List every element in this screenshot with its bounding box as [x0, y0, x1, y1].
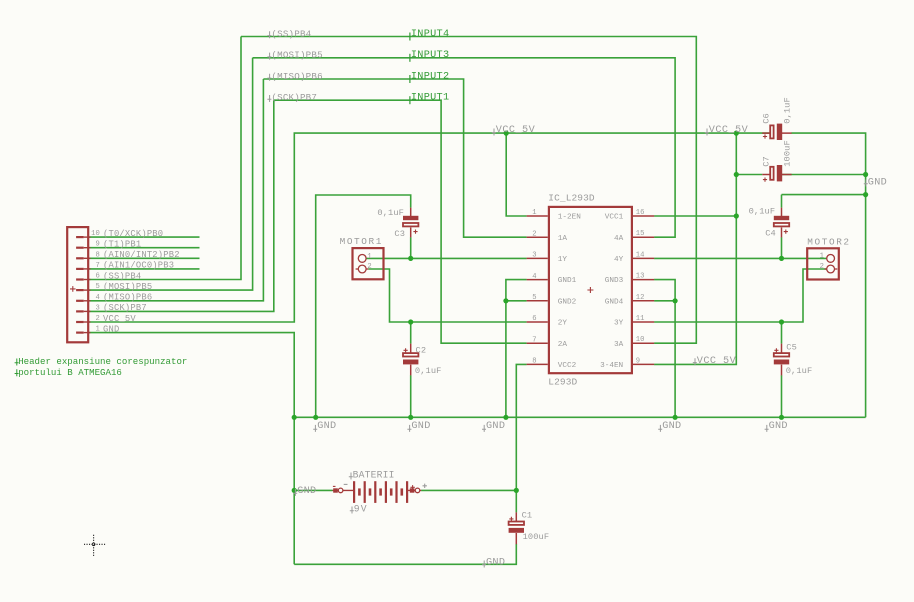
wire IC GND2 pin 5 to GND vertical: [506, 300, 527, 302]
wire net INPUT4: top row 1 to IC pin 10: [241, 37, 696, 344]
svg-text:4: 4: [95, 294, 99, 302]
header pin 7 contact tick: [76, 268, 84, 270]
header pin 6 contact tick: [76, 278, 84, 280]
MOTOR1 pin 2 circle and lead: [356, 268, 369, 270]
junction GND bus at C5: [779, 415, 784, 420]
wire net 1Y: MOTOR1 pin 1 to IC pin 3: [366, 257, 526, 259]
capacitor C1 leads: [515, 512, 517, 544]
svg-text:9: 9: [95, 241, 99, 249]
svg-text:(SS)PB4: (SS)PB4: [103, 271, 141, 281]
svg-text:INPUT4: INPUT4: [411, 29, 449, 40]
svg-text:4: 4: [532, 273, 536, 281]
junction VCC vertical at C7: [734, 172, 739, 177]
IC pin 15 stub: [633, 236, 654, 238]
net label (SCK)PB7: [267, 95, 271, 102]
svg-text:10: 10: [91, 230, 100, 238]
svg-text:VCC2: VCC2: [558, 362, 577, 370]
IC pin 6 stub: [527, 321, 548, 323]
wire IC GND4 pin 12 to GND vertical: [654, 300, 675, 302]
svg-text:GND: GND: [103, 324, 119, 334]
junction C2 top on 2Y net: [408, 319, 413, 324]
svg-text:GND: GND: [297, 486, 316, 497]
IC pin 16 stub: [633, 215, 654, 217]
svg-text:(MOSI)PB5: (MOSI)PB5: [271, 50, 322, 61]
svg-text:10: 10: [636, 336, 645, 344]
svg-text:GND: GND: [486, 421, 505, 432]
C1 polarity +: [509, 517, 513, 521]
svg-text:(SS)PB4: (SS)PB4: [271, 28, 311, 39]
svg-text:4Y: 4Y: [614, 256, 624, 264]
C5 polarity +: [774, 348, 778, 352]
wire C3 bottom lead to 1Y net: [410, 237, 412, 258]
wire net INPUT3: top row 2 to IC pin 15: [253, 58, 675, 237]
net label GND (bus at GND3/4): [658, 425, 662, 432]
svg-text:3-4EN: 3-4EN: [600, 362, 623, 370]
IC pin 8 stub: [527, 363, 548, 365]
svg-text:GND2: GND2: [558, 298, 577, 306]
svg-text:16: 16: [636, 209, 645, 217]
svg-text:15: 15: [636, 230, 645, 238]
junction GND bus at GND3/4: [673, 415, 678, 420]
header pin 5 contact tick: [76, 289, 84, 291]
wire net (MOSI)PB5: vertical down to header pin 5: [89, 58, 252, 290]
capacitor C6 plates: [770, 124, 782, 140]
C6 polarity +: [763, 134, 767, 138]
net label INPUT2: [409, 75, 411, 83]
svg-text:11: 11: [636, 315, 645, 323]
wire VCC_5V drop to IC pin 1: [506, 133, 526, 216]
svg-text:13: 13: [636, 273, 645, 281]
connector MOTOR2 body: [807, 248, 839, 279]
svg-text:GND: GND: [486, 558, 505, 569]
svg-text:3A: 3A: [614, 341, 624, 349]
svg-text:INPUT3: INPUT3: [411, 50, 449, 61]
note: Header expansiune corespunzator: [15, 359, 19, 366]
svg-text:(SCK)PB7: (SCK)PB7: [103, 303, 147, 313]
svg-text:L293D: L293D: [548, 377, 577, 388]
wire net (T0/XCK)PB0 stub: [89, 236, 199, 238]
wire C4 top to GND rail: [782, 194, 866, 196]
svg-text:1-2EN: 1-2EN: [558, 214, 581, 222]
IC pin 9 stub: [633, 363, 654, 365]
wire C2 top lead from 2Y net: [410, 322, 412, 344]
svg-text:VCC_5V: VCC_5V: [496, 125, 536, 136]
wire bottom GND rail to C1 bottom: [294, 544, 516, 564]
net label (MISO)PB6: [267, 74, 271, 81]
net label INPUT3: [409, 54, 411, 62]
net label GND (bus at C5): [765, 425, 769, 432]
svg-text:2A: 2A: [558, 341, 568, 349]
wire net (MISO)PB6: vertical down to header pin 4: [89, 79, 263, 301]
svg-text:C4: C4: [765, 228, 776, 238]
svg-text:(T0/XCK)PB0: (T0/XCK)PB0: [103, 229, 163, 239]
wire C3 top to GND bus via left loop: [316, 195, 411, 417]
svg-text:VCC1: VCC1: [605, 214, 624, 222]
capacitor C6 leads: [762, 132, 791, 134]
C7 polarity +: [763, 178, 767, 182]
capacitor C1 plates: [509, 522, 524, 533]
svg-text:7: 7: [532, 336, 536, 344]
svg-text:INPUT2: INPUT2: [411, 71, 449, 82]
svg-text:0,1uF: 0,1uF: [783, 97, 793, 124]
svg-text:0,1uF: 0,1uF: [786, 366, 813, 376]
net label GND (bus at C3): [313, 425, 317, 432]
svg-text:1: 1: [532, 209, 536, 217]
wire battery plus to VCC2 vertical: [421, 489, 516, 491]
header pin 9 contact tick: [76, 247, 84, 249]
junction C3 bottom on 1Y net: [408, 256, 413, 261]
svg-text:3: 3: [95, 304, 99, 312]
header pin 8 contact tick: [76, 257, 84, 259]
connector header SV1 (port B expansion) body: [67, 227, 88, 342]
svg-text:9: 9: [636, 357, 640, 365]
wire IC GND1 pin 4 down to GND bus: [506, 280, 527, 418]
IC pin 4 stub: [527, 279, 548, 281]
junction VCC_5V at IC pin1 drop: [504, 131, 509, 136]
header pin 6 lead: [84, 279, 91, 281]
svg-text:9V: 9V: [354, 503, 368, 514]
net label GND (right rail): [864, 180, 868, 187]
svg-text:1A: 1A: [558, 235, 568, 243]
IC pin 11 stub: [633, 321, 654, 323]
svg-text:0,1uF: 0,1uF: [749, 206, 776, 216]
net label VCC_5V (at IC pin 9): [693, 358, 697, 365]
svg-text:GND3: GND3: [605, 277, 624, 285]
junction GND3-GND4: [673, 298, 678, 303]
header pin 3 lead: [84, 310, 91, 312]
wire net (AIN1/OC0)PB3 stub: [89, 268, 199, 270]
svg-text:7: 7: [95, 262, 99, 270]
header pin 4 contact tick: [76, 300, 84, 302]
svg-text:VCC_5V: VCC_5V: [697, 356, 737, 367]
net label GND (bus at GND1/2): [482, 425, 486, 432]
net label (MOSI)PB5: [267, 53, 271, 60]
battery value label 9V: [350, 507, 354, 514]
capacitor C4 plates: [774, 216, 789, 227]
wire VCC_5V vertical to IC pin 9: [654, 133, 736, 364]
svg-text:(AIN1/OC0)PB3: (AIN1/OC0)PB3: [103, 261, 174, 271]
note line 2: portului B ATMEGA16: [15, 369, 19, 376]
svg-text:portului B ATMEGA16: portului B ATMEGA16: [18, 367, 122, 378]
wire IC GND3 pin 13 down to GND bus: [654, 280, 675, 418]
junction GND rail at C7 right: [863, 172, 868, 177]
MOTOR2 pin 2 circle and lead: [825, 268, 838, 270]
IC origin marker +: [587, 287, 593, 293]
svg-text:12: 12: [636, 294, 645, 302]
wire C7 right to GND rail: [782, 174, 866, 176]
svg-text:100uF: 100uF: [783, 140, 793, 167]
header pin 2 contact tick: [76, 321, 84, 323]
svg-text:(AIN0/INT2)PB2: (AIN0/INT2)PB2: [103, 250, 180, 260]
IC pin 1 stub: [527, 215, 548, 217]
IC pin 13 stub: [633, 279, 654, 281]
junction VCC vertical at IC pin 16: [734, 213, 739, 218]
svg-text:C3: C3: [394, 229, 405, 239]
junction VCC_5V at right vertical: [734, 131, 739, 136]
wire VCC vertical to C7 left: [736, 174, 762, 176]
junction battery plus at C1: [514, 488, 519, 493]
C2 polarity +: [404, 348, 408, 352]
svg-text:2Y: 2Y: [558, 320, 568, 328]
junction GND bus at C3 loop: [313, 415, 318, 420]
sheet origin dotted cross: [84, 543, 105, 545]
svg-text:MOTOR1: MOTOR1: [340, 236, 383, 247]
IC pin 3 stub: [527, 257, 548, 259]
junction GND bus at GND1/2: [503, 415, 508, 420]
net label GND (bottom rail): [482, 561, 486, 568]
wire net (T1)PB1 stub: [89, 247, 199, 249]
wire net (AIN0/INT2)PB2 stub: [89, 257, 199, 259]
svg-text:MOTOR2: MOTOR2: [807, 236, 850, 247]
capacitor C2 plates: [403, 353, 418, 364]
capacitor C3 plates: [403, 216, 418, 227]
svg-text:(MISO)PB6: (MISO)PB6: [103, 293, 152, 303]
wire GND: C6 right to right rail down to bus: [791, 133, 865, 417]
svg-text:Header expansiune corespunzato: Header expansiune corespunzator: [18, 356, 187, 367]
svg-text:1Y: 1Y: [558, 256, 568, 264]
svg-text:VCC_5V: VCC_5V: [709, 125, 749, 136]
svg-text:(MOSI)PB5: (MOSI)PB5: [103, 282, 152, 292]
svg-text:GND4: GND4: [605, 298, 624, 306]
net label GND (bus at C2): [407, 425, 411, 432]
svg-text:GND: GND: [411, 421, 430, 432]
header pin 10 lead: [84, 236, 91, 238]
battery BATERII 9V symbol: [333, 481, 422, 503]
junction GND bus at C2: [408, 415, 413, 420]
wire net 2Y: MOTOR1 pin 2 to IC pin 6: [368, 269, 526, 322]
IC pin 2 stub: [527, 236, 548, 238]
svg-text:BATERII: BATERII: [353, 469, 395, 480]
battery pad polarity gray -: [344, 483, 348, 485]
svg-text:5: 5: [95, 283, 99, 291]
wire net VCC_5V: header pin 2 up to VCC rail: [89, 133, 769, 322]
svg-text:GND: GND: [317, 421, 336, 432]
svg-text:GND1: GND1: [558, 277, 577, 285]
wire net INPUT2: top row 3 to IC pin 2: [263, 79, 526, 237]
wire net (SCK)PB7: vertical down to header pin 3: [89, 100, 274, 311]
wire C4 bottom lead to 4Y net: [781, 237, 783, 258]
svg-text:3: 3: [532, 252, 536, 260]
wire C5 bottom to GND bus: [781, 375, 783, 417]
net label INPUT1: [409, 96, 411, 104]
junction GND1-GND2: [503, 298, 508, 303]
svg-text:1: 1: [820, 253, 824, 261]
capacitor C3 lead top: [410, 208, 412, 238]
net label GND (battery minus): [293, 489, 297, 496]
capacitor C5 plates: [774, 353, 789, 364]
IC pin 5 stub: [527, 300, 548, 302]
svg-text:0,1uF: 0,1uF: [377, 208, 404, 218]
battery pad polarity gray +: [423, 484, 427, 488]
capacitor C5 leads: [781, 344, 783, 376]
svg-text:GND: GND: [868, 177, 887, 188]
IC pin 12 stub: [633, 300, 654, 302]
capacitor C2 leads: [410, 344, 412, 376]
header pin 5 lead: [84, 289, 91, 291]
svg-text:(SCK)PB7: (SCK)PB7: [271, 92, 317, 103]
wire GND to battery minus: [294, 489, 332, 491]
svg-text:2: 2: [532, 230, 536, 238]
wire net INPUT1: top row 4 to IC pin 7: [274, 100, 527, 343]
svg-text:1: 1: [95, 326, 99, 334]
svg-text:8: 8: [95, 251, 99, 259]
net label VCC_5V (right top): [705, 129, 709, 136]
svg-text:1: 1: [367, 253, 371, 261]
header pin 8 lead: [84, 257, 91, 259]
svg-text:100uF: 100uF: [523, 532, 550, 542]
capacitor C4 leads: [781, 208, 783, 238]
svg-text:GND: GND: [662, 421, 681, 432]
header pin 7 lead: [84, 268, 91, 270]
svg-text:6: 6: [95, 273, 99, 281]
IC pin 7 stub: [527, 342, 548, 344]
connector MOTOR1 body: [353, 248, 384, 279]
wire GND bus horizontal: [294, 416, 865, 418]
wire net 3Y: IC pin 11 to MOTOR2 pin 2: [654, 269, 827, 322]
IC pin 10 stub: [633, 342, 654, 344]
wire net 4Y: IC pin 14 to MOTOR2 pin 1: [654, 257, 827, 259]
svg-text:C1: C1: [522, 511, 533, 521]
svg-text:3Y: 3Y: [614, 320, 624, 328]
header pin 10 contact tick: [76, 236, 84, 238]
header pin 9 lead: [84, 247, 91, 249]
header pin 3 contact tick: [76, 310, 84, 312]
wire net (SS)PB4: vertical down to header pin 6: [89, 37, 241, 280]
wire GND: header pin 1 down left rail: [89, 333, 294, 565]
header pin 2 lead: [84, 321, 91, 323]
op IC_L293D body U1: [549, 207, 632, 373]
svg-text:C6: C6: [762, 113, 772, 124]
svg-text:0,1uF: 0,1uF: [415, 366, 442, 376]
header pin 1 contact tick: [76, 332, 84, 334]
wire C5 top lead from 3Y net: [781, 322, 783, 344]
svg-text:GND: GND: [769, 421, 788, 432]
header part origin marker +: [70, 286, 76, 292]
capacitor C7 plates: [770, 165, 782, 181]
junction C4 bottom on 4Y net: [779, 256, 784, 261]
junction C5 top on 3Y net: [779, 319, 784, 324]
wire C2 bottom to GND bus: [410, 375, 412, 417]
C4 polarity +: [784, 230, 788, 234]
net label (SS)PB4: [267, 31, 271, 38]
header pin 4 lead: [84, 300, 91, 302]
svg-text:2: 2: [95, 315, 99, 323]
wire net 9V: IC VCC2 pin 8 down to battery plus: [516, 364, 526, 490]
junction GND bus left: [292, 415, 297, 420]
net label INPUT4: [409, 33, 411, 41]
wire C4 top lead: [781, 195, 783, 208]
svg-text:VCC_5V: VCC_5V: [103, 314, 136, 324]
battery name label BATERII: [349, 473, 353, 480]
IC pin 14 stub: [633, 257, 654, 259]
MOTOR1 pin 1 circle: [358, 255, 366, 263]
svg-text:8: 8: [532, 358, 536, 366]
svg-text:(T1)PB1: (T1)PB1: [103, 240, 141, 250]
svg-text:(MISO)PB6: (MISO)PB6: [271, 71, 322, 82]
svg-text:4A: 4A: [614, 235, 624, 243]
MOTOR2 pin 1 circle: [827, 255, 835, 263]
svg-text:5: 5: [532, 294, 536, 302]
net label VCC_5V (left): [492, 129, 496, 136]
svg-text:C5: C5: [786, 343, 797, 353]
svg-text:2: 2: [820, 263, 824, 271]
capacitor C7 leads: [762, 174, 791, 176]
svg-text:2: 2: [367, 263, 371, 271]
junction GND rail at C4 loop: [863, 192, 868, 197]
svg-text:C2: C2: [416, 346, 427, 356]
header pin 1 lead: [84, 332, 91, 334]
svg-text:C7: C7: [762, 156, 772, 167]
svg-text:IC_L293D: IC_L293D: [548, 192, 595, 203]
wire IC pin 16 to VCC vertical: [654, 215, 736, 217]
svg-text:14: 14: [636, 251, 645, 259]
junction battery minus rail: [292, 488, 297, 493]
C3 polarity +: [413, 230, 417, 234]
svg-text:INPUT1: INPUT1: [411, 93, 449, 104]
wire C1 top lead from battery net: [515, 490, 517, 512]
svg-text:6: 6: [532, 315, 536, 323]
